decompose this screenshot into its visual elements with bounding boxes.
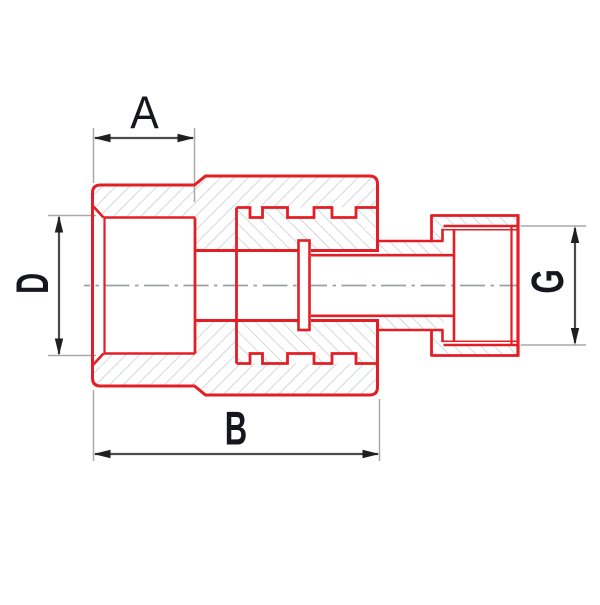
- dimension A arrow line: [95, 137, 193, 139]
- socket chamfer edge vertical: [103, 218, 105, 354]
- svg-text:G: G: [523, 269, 573, 293]
- thread crest bottom: [444, 344, 519, 347]
- insert castellation top: [237, 208, 378, 218]
- hatch nut wall bottom: [432, 330, 519, 356]
- nut right face: [516, 214, 519, 357]
- insert left face: [235, 208, 238, 364]
- hatch metal insert top: [237, 208, 444, 256]
- dimension B extension lines: [93, 390, 95, 461]
- insert bore line top left: [195, 249, 298, 252]
- socket end face: [194, 218, 197, 354]
- hatch plastic body bottom wall: [93, 321, 378, 395]
- pipe outer bottom: [378, 329, 444, 332]
- bore line bottom right of washer: [311, 319, 379, 322]
- hatch nut wall top: [432, 216, 519, 242]
- socket opening chamfer top: [93, 206, 104, 218]
- socket bore top line: [104, 216, 196, 219]
- socket opening chamfer bottom: [93, 354, 104, 366]
- dimension A extension lines: [93, 128, 95, 183]
- thread chamfer line at opening: [510, 226, 512, 345]
- socket outer contour top: [93, 176, 378, 285]
- thread root top: [444, 229, 519, 231]
- nut outer top edge: [432, 214, 519, 217]
- washer slot: [299, 241, 310, 331]
- insert bore line bottom left: [195, 319, 298, 322]
- socket outer contour bottom: [93, 285, 378, 395]
- bore thin line bottom right: [311, 314, 454, 317]
- svg-text:A: A: [130, 88, 159, 139]
- thread crest top: [444, 225, 519, 228]
- pipe outer top: [378, 240, 444, 243]
- dimension D extension lines: [48, 215, 96, 217]
- bore line top right of washer: [311, 249, 379, 252]
- svg-text:D: D: [8, 273, 59, 294]
- dimension G extension lines: [521, 225, 587, 227]
- socket bore bottom line: [104, 352, 196, 355]
- dimension B arrow line: [95, 453, 378, 455]
- thread bore face: [453, 230, 456, 341]
- dimension G arrow line: [574, 228, 576, 343]
- hatch metal insert bottom: [237, 316, 444, 364]
- center line: [84, 285, 517, 287]
- hatch plastic body top wall: [93, 176, 378, 250]
- thread root bottom: [444, 340, 519, 342]
- nut outer bottom edge: [432, 354, 519, 357]
- bore thin line top right: [311, 254, 454, 257]
- nut left face bottom: [430, 330, 433, 357]
- insert castellation bottom: [237, 354, 378, 364]
- pipe-thread step bottom: [441, 330, 444, 342]
- dimension D arrow line: [58, 217, 60, 354]
- nut left face top: [430, 215, 433, 242]
- svg-text:B: B: [225, 403, 247, 455]
- pipe-thread step top: [441, 229, 444, 241]
